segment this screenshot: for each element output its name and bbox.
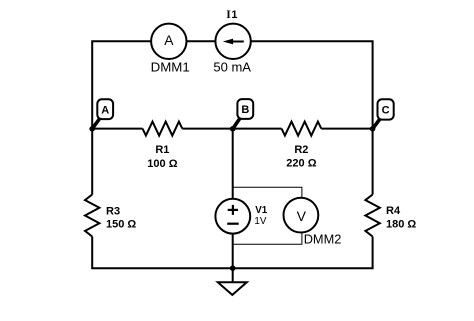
wire node B down to V1: [232, 129, 234, 199]
node C box: [378, 99, 394, 119]
svg-text:150 Ω: 150 Ω: [106, 219, 136, 231]
wire middle horizontal A to R1: [92, 128, 142, 130]
svg-text:V1: V1: [255, 205, 268, 216]
wire top-left: from ammeter left to left rail corner: [92, 41, 151, 128]
svg-text:R4: R4: [386, 205, 401, 217]
voltmeter DMM2: [284, 198, 319, 233]
resistor R4: [365, 195, 379, 237]
node B junction dot: [230, 126, 236, 132]
wire V1 bottom to ground rail: [232, 233, 234, 268]
ground junction dot: [230, 265, 236, 271]
svg-text:100 Ω: 100 Ω: [147, 158, 177, 170]
node C junction dot: [370, 126, 376, 132]
svg-text:R3: R3: [106, 206, 120, 218]
wire R1 to node B: [182, 128, 281, 130]
svg-text:R1: R1: [155, 144, 169, 156]
node C callout tail: [373, 119, 380, 129]
svg-text:R2: R2: [294, 144, 308, 156]
svg-text:DMM1: DMM1: [151, 60, 190, 75]
wire R4 to bottom-right corner: [233, 237, 373, 269]
wire top-right: from current source to right rail down to node C: [251, 41, 373, 128]
wire R3 to bottom-left corner: [92, 237, 233, 269]
wire R2 to node C: [321, 128, 372, 130]
voltmeter DMM2 thin wire top: [233, 187, 302, 198]
svg-text:50 mA: 50 mA: [213, 60, 251, 75]
svg-text:220 Ω: 220 Ω: [286, 158, 316, 170]
node A junction dot: [89, 126, 95, 132]
wire between ammeter and current source: [186, 40, 215, 42]
current source I1 arrow: [231, 41, 244, 43]
V1 plus sign: [228, 209, 238, 211]
wire left rail A down to R3: [91, 129, 93, 195]
node A box: [97, 99, 113, 119]
svg-text:V: V: [297, 208, 307, 224]
voltmeter DMM2 thin wire bottom: [233, 233, 302, 245]
current source I1 circle: [215, 24, 250, 59]
node A callout tail: [92, 119, 100, 129]
resistor R3: [85, 195, 99, 237]
svg-text:A: A: [101, 104, 109, 116]
node B callout tail: [233, 119, 240, 129]
ammeter DMM1: [151, 24, 186, 59]
voltage source V1 circle: [215, 199, 250, 234]
ground stem: [232, 268, 234, 282]
svg-text:1V: 1V: [254, 216, 266, 227]
svg-text:DMM2: DMM2: [304, 231, 342, 246]
resistor R2: [282, 122, 322, 136]
svg-text:C: C: [382, 105, 390, 117]
wire right rail C down to R4: [372, 129, 374, 195]
node B box: [237, 99, 253, 119]
svg-text:B: B: [241, 104, 249, 116]
V1 minus sign: [227, 223, 239, 225]
svg-text:A: A: [164, 33, 174, 48]
resistor R1: [143, 122, 183, 136]
svg-text:I1: I1: [226, 9, 237, 21]
svg-text:180 Ω: 180 Ω: [386, 219, 416, 231]
ground triangle: [218, 282, 247, 295]
